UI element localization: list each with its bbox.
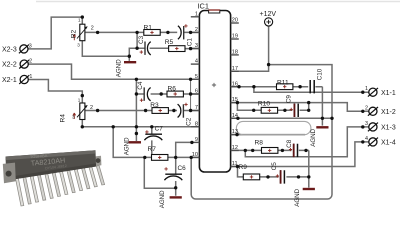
svg-text:C2: C2	[186, 117, 193, 126]
junction C8 right / AGND2 drop	[304, 149, 307, 152]
junction bus top on pin5 wire	[135, 78, 138, 81]
wire X2-1 to R4 top	[28, 80, 82, 104]
svg-text:C1: C1	[186, 38, 193, 47]
ground AGND2 (right, R9/C8)	[294, 188, 315, 206]
trimmer R2	[70, 17, 94, 47]
svg-text:C3: C3	[138, 35, 145, 44]
svg-text:1: 1	[78, 17, 81, 22]
svg-text:2: 2	[365, 105, 368, 111]
resistor R3	[152, 108, 168, 114]
svg-text:R2: R2	[70, 30, 77, 39]
R10 C9 zobel row	[237, 103, 308, 111]
svg-text:3: 3	[29, 43, 32, 49]
resistor R6	[167, 91, 183, 97]
junction pin16 stub	[237, 85, 240, 88]
svg-text:18: 18	[232, 50, 238, 56]
svg-text:X1-4: X1-4	[381, 140, 396, 147]
IC pins left	[191, 17, 200, 158]
junction R11-C10	[298, 85, 301, 88]
long vertical ground bus x=136.4	[135, 79, 137, 141]
pin9 drop to R7 row	[176, 142, 192, 157]
svg-text:IC1: IC1	[198, 1, 210, 10]
svg-text:4: 4	[195, 59, 198, 65]
resistor R8	[262, 148, 278, 154]
svg-text:X1-2: X1-2	[381, 109, 396, 116]
riser R1 row to C3 row	[136, 32, 138, 48]
svg-text:3: 3	[77, 43, 80, 48]
svg-text:R9: R9	[239, 164, 248, 171]
notch mark	[209, 10, 220, 13]
junction R4 top	[81, 94, 84, 97]
svg-text:2: 2	[90, 105, 93, 111]
junction X1-1 pin	[361, 91, 364, 94]
svg-text:1: 1	[78, 98, 81, 103]
junction R3 left	[144, 109, 147, 112]
junction R4 bottom	[81, 125, 84, 128]
C6 stems	[175, 157, 177, 195]
origin cross	[212, 83, 216, 87]
junction R9-C5	[266, 175, 269, 178]
chip photo legs	[16, 166, 105, 206]
junction bus-C4	[135, 92, 138, 95]
junction C4-R6	[160, 92, 163, 95]
capacitor C5 (polarized)	[271, 162, 284, 184]
junction C5 right	[297, 175, 300, 178]
svg-text:R8: R8	[255, 139, 264, 146]
junction R6-pin6	[189, 92, 192, 95]
junction R3-C2	[172, 109, 175, 112]
stadium ghost loop	[236, 121, 311, 134]
connector X2-1	[2, 74, 32, 84]
svg-text:X1-1: X1-1	[381, 90, 396, 97]
op-amp IC1 body	[199, 10, 230, 172]
svg-text:R5: R5	[165, 39, 174, 46]
svg-text:R1: R1	[144, 24, 153, 31]
junction X1-3 pin	[361, 125, 364, 128]
svg-text:C7: C7	[155, 126, 164, 133]
svg-text:2: 2	[91, 26, 94, 32]
X1-1 jog row	[254, 87, 369, 93]
svg-text:3: 3	[365, 121, 368, 127]
wire R7 left to C6 bottom / AGND	[144, 157, 175, 188]
svg-text:X2-3: X2-3	[2, 46, 17, 53]
svg-text:C4: C4	[137, 81, 144, 90]
junction X1-1 branch	[252, 85, 255, 88]
pin numbers right	[232, 18, 238, 168]
wire bus to C4 left plate	[136, 93, 144, 95]
svg-text:AGND: AGND	[159, 190, 166, 208]
junction pin9 stub	[190, 141, 193, 144]
wire R4 wiper to R3 to C2 to pin7	[85, 110, 199, 112]
junction C6 bottom stem	[174, 186, 177, 189]
capacitor C3 (polarized)	[138, 35, 151, 55]
junction R7 riser top	[112, 125, 115, 128]
junction pin12 row X1-3 jog	[244, 149, 247, 152]
bottom rail pin10 to +12V bus	[191, 157, 332, 199]
svg-text:C10: C10	[317, 68, 324, 80]
svg-text:4: 4	[365, 136, 368, 142]
wire X2-2 to pin5	[28, 64, 199, 79]
vertical pins5/6/7 tie x=190.6	[190, 79, 192, 110]
svg-text:R10: R10	[258, 101, 270, 108]
AGND1 drop	[321, 87, 323, 126]
junction C7 top	[150, 125, 153, 128]
wire X2-3 to R2 top	[28, 17, 82, 49]
junction pin11 stub / zobel drop	[236, 165, 239, 168]
wire C3 to R5 to pin3	[150, 47, 200, 49]
junction +12V tee	[267, 63, 270, 66]
svg-text:C5: C5	[271, 162, 278, 171]
pin16 row R11 C10	[231, 86, 323, 88]
svg-text:C6: C6	[178, 165, 187, 172]
svg-text:1: 1	[365, 86, 368, 92]
junction R7 right / C6 top	[174, 156, 177, 159]
junction C2-pin7	[189, 109, 192, 112]
wire C4 to R6 to pin6	[151, 93, 200, 95]
capacitor C2 (polarized)	[178, 103, 193, 126]
svg-text:X2-1: X2-1	[2, 77, 17, 84]
junction pin10 / rail drop	[190, 156, 193, 159]
resistor R9	[243, 174, 259, 180]
wire R7 to pin10	[168, 156, 199, 158]
connector X1-1	[365, 86, 396, 97]
X1-3 feed: jog from pin12 row	[245, 127, 368, 157]
capacitor C6 (polarized, vertical)	[164, 165, 186, 180]
C7 stems	[151, 127, 153, 158]
svg-text:X1-3: X1-3	[381, 125, 396, 132]
pin13 row	[231, 134, 305, 136]
connector X1-2	[365, 105, 396, 116]
pin11 row to X1-4	[231, 142, 369, 167]
junction R7 left	[143, 156, 146, 159]
svg-text:2: 2	[195, 27, 198, 33]
connector X2-2	[2, 59, 32, 69]
capacitor C8 (polarized)	[286, 139, 298, 157]
junction pin13 stub	[235, 133, 238, 136]
connector X1-4	[365, 136, 396, 147]
svg-text:3: 3	[72, 114, 75, 119]
pin14 row	[231, 117, 332, 119]
svg-text:12: 12	[232, 145, 238, 151]
junction C1-pin2	[189, 31, 192, 34]
wire R1 to C1 to pin2	[160, 31, 199, 33]
svg-text:3: 3	[195, 43, 198, 49]
junction R4 wiper	[96, 109, 99, 112]
wire R4 bottom to ground bus	[82, 120, 136, 127]
junction pin14 row / +12V bus	[330, 117, 333, 120]
junction R9 row / AGND2 drop	[307, 175, 310, 178]
resistor R1	[144, 30, 160, 36]
wire R2 wiper to R1 row	[85, 31, 143, 33]
svg-text:R3: R3	[150, 102, 159, 109]
junction R8 left	[251, 149, 254, 152]
resistor R10	[261, 107, 277, 113]
junction R10-C9	[283, 109, 286, 112]
svg-text:X2-2: X2-2	[2, 62, 17, 69]
capacitor C9 (polarized)	[285, 95, 298, 117]
ground AGND (R2 bottom)	[116, 56, 137, 77]
junction bus-AGND stem	[135, 132, 138, 135]
capacitor C4 (polarized)	[137, 81, 150, 102]
junction pin14 stub	[236, 117, 239, 120]
svg-text:8: 8	[195, 121, 198, 127]
junction zobel riser top	[307, 101, 310, 104]
svg-text:R6: R6	[168, 86, 177, 93]
IC pins right	[231, 23, 239, 167]
junction R5-pin3	[189, 47, 192, 50]
R9 C5 zobel row	[238, 167, 309, 177]
svg-text:R7: R7	[148, 146, 157, 153]
junction R2 wiper	[96, 31, 99, 34]
faint top image border	[36, 1, 400, 3]
svg-text:AGND: AGND	[116, 59, 123, 77]
svg-text:1: 1	[29, 74, 32, 80]
connector X1-3	[365, 121, 396, 132]
pin numbers left	[192, 11, 198, 158]
svg-text:C9: C9	[285, 95, 292, 104]
pin15 main row to X1-2	[231, 103, 369, 112]
capacitor C10	[310, 68, 323, 93]
junction X1-4 pin	[361, 140, 364, 143]
svg-text:17: 17	[232, 66, 238, 72]
svg-text:R4: R4	[60, 114, 67, 123]
junction AGND1 drop crossing	[321, 117, 324, 120]
ground AGND1 (right, C10)	[310, 127, 328, 147]
chip photo body	[6, 150, 97, 180]
junction R1-C1	[166, 31, 169, 34]
svg-text:AGND: AGND	[310, 128, 317, 146]
svg-text:5: 5	[195, 74, 198, 80]
junction R2 top	[81, 15, 84, 18]
junction R1 row / C3 riser	[135, 31, 138, 34]
junction pin15 stub / zobel drop	[236, 101, 239, 104]
trimmer R4	[60, 98, 94, 123]
wire R7 left riser	[113, 127, 151, 158]
AGND2 drop	[308, 150, 310, 187]
ground AGND (C6 bottom)	[159, 190, 182, 208]
junction bus on pin8 row	[135, 125, 138, 128]
svg-text:AGND: AGND	[294, 188, 301, 206]
svg-text:19: 19	[232, 34, 238, 40]
svg-text:2: 2	[29, 59, 32, 65]
connector X2-3	[2, 43, 32, 53]
svg-text:C8: C8	[286, 139, 293, 148]
capacitor C1 (polarized)	[178, 24, 193, 46]
wire AGND junction up to C3 row	[129, 48, 145, 56]
svg-text:16: 16	[232, 81, 238, 87]
svg-text:+12V: +12V	[260, 11, 277, 18]
svg-text:1: 1	[195, 11, 198, 17]
svg-text:9: 9	[195, 137, 198, 143]
resistor R7	[152, 155, 168, 161]
chip photo tabs	[94, 156, 101, 166]
junction R8-C8	[281, 149, 284, 152]
svg-text:7: 7	[195, 105, 198, 111]
wire R2 bottom to AGND junction	[82, 41, 129, 56]
svg-text:20: 20	[232, 18, 238, 24]
svg-text:AGND: AGND	[123, 137, 130, 155]
resistor R5	[169, 46, 185, 52]
junction tie-pin5	[189, 78, 192, 81]
svg-text:R11: R11	[277, 79, 289, 86]
wire pin8 row: bus to C7 to pin8	[136, 126, 199, 128]
junction X1-2 pin	[361, 110, 364, 113]
resistor R11	[277, 84, 293, 90]
+12V supply symbol	[260, 11, 277, 26]
junction C9 right	[307, 109, 310, 112]
capacitor C7 (polarized, vertical)	[144, 126, 163, 141]
junction R10 left	[252, 109, 255, 112]
junction R2 bottom / AGND tee	[128, 55, 131, 58]
+12V stem and branch	[231, 26, 332, 194]
ground AGND (bus x=136.4)	[123, 137, 141, 155]
pin12 row R8 C8	[231, 149, 309, 151]
svg-text:6: 6	[195, 89, 198, 95]
junction C3 row tee	[135, 47, 138, 50]
